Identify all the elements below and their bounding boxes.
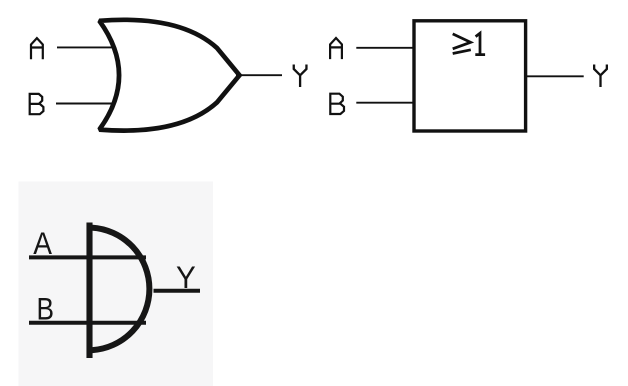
wire B to U1	[56, 103, 115, 105]
wire A to U2	[356, 47, 412, 49]
wire A to U1	[57, 46, 114, 48]
or-gate U3 (DIN half-moon symbol)	[90, 223, 150, 359]
label Y (U2 output)	[594, 65, 607, 88]
label A (U2 input)	[330, 38, 342, 59]
panel background (gray)	[19, 182, 214, 386]
label B (U1 input)	[29, 93, 44, 116]
wire B to U2	[356, 102, 412, 104]
wire U1 output	[236, 74, 282, 76]
label B (U2 input)	[329, 93, 344, 116]
label >=1 (U2 function)	[453, 33, 485, 54]
or-gate U2 (IEC rectangular symbol)	[414, 21, 526, 131]
wire U3 output	[154, 289, 201, 293]
wire B to U3	[29, 321, 146, 325]
or-gate U1 (ANSI distinctive-shape OR)	[99, 20, 239, 131]
wire A to U3	[29, 255, 146, 259]
label Y (U1 output)	[294, 65, 307, 88]
label A (U1 input)	[31, 38, 43, 59]
wire U2 output	[527, 75, 584, 77]
